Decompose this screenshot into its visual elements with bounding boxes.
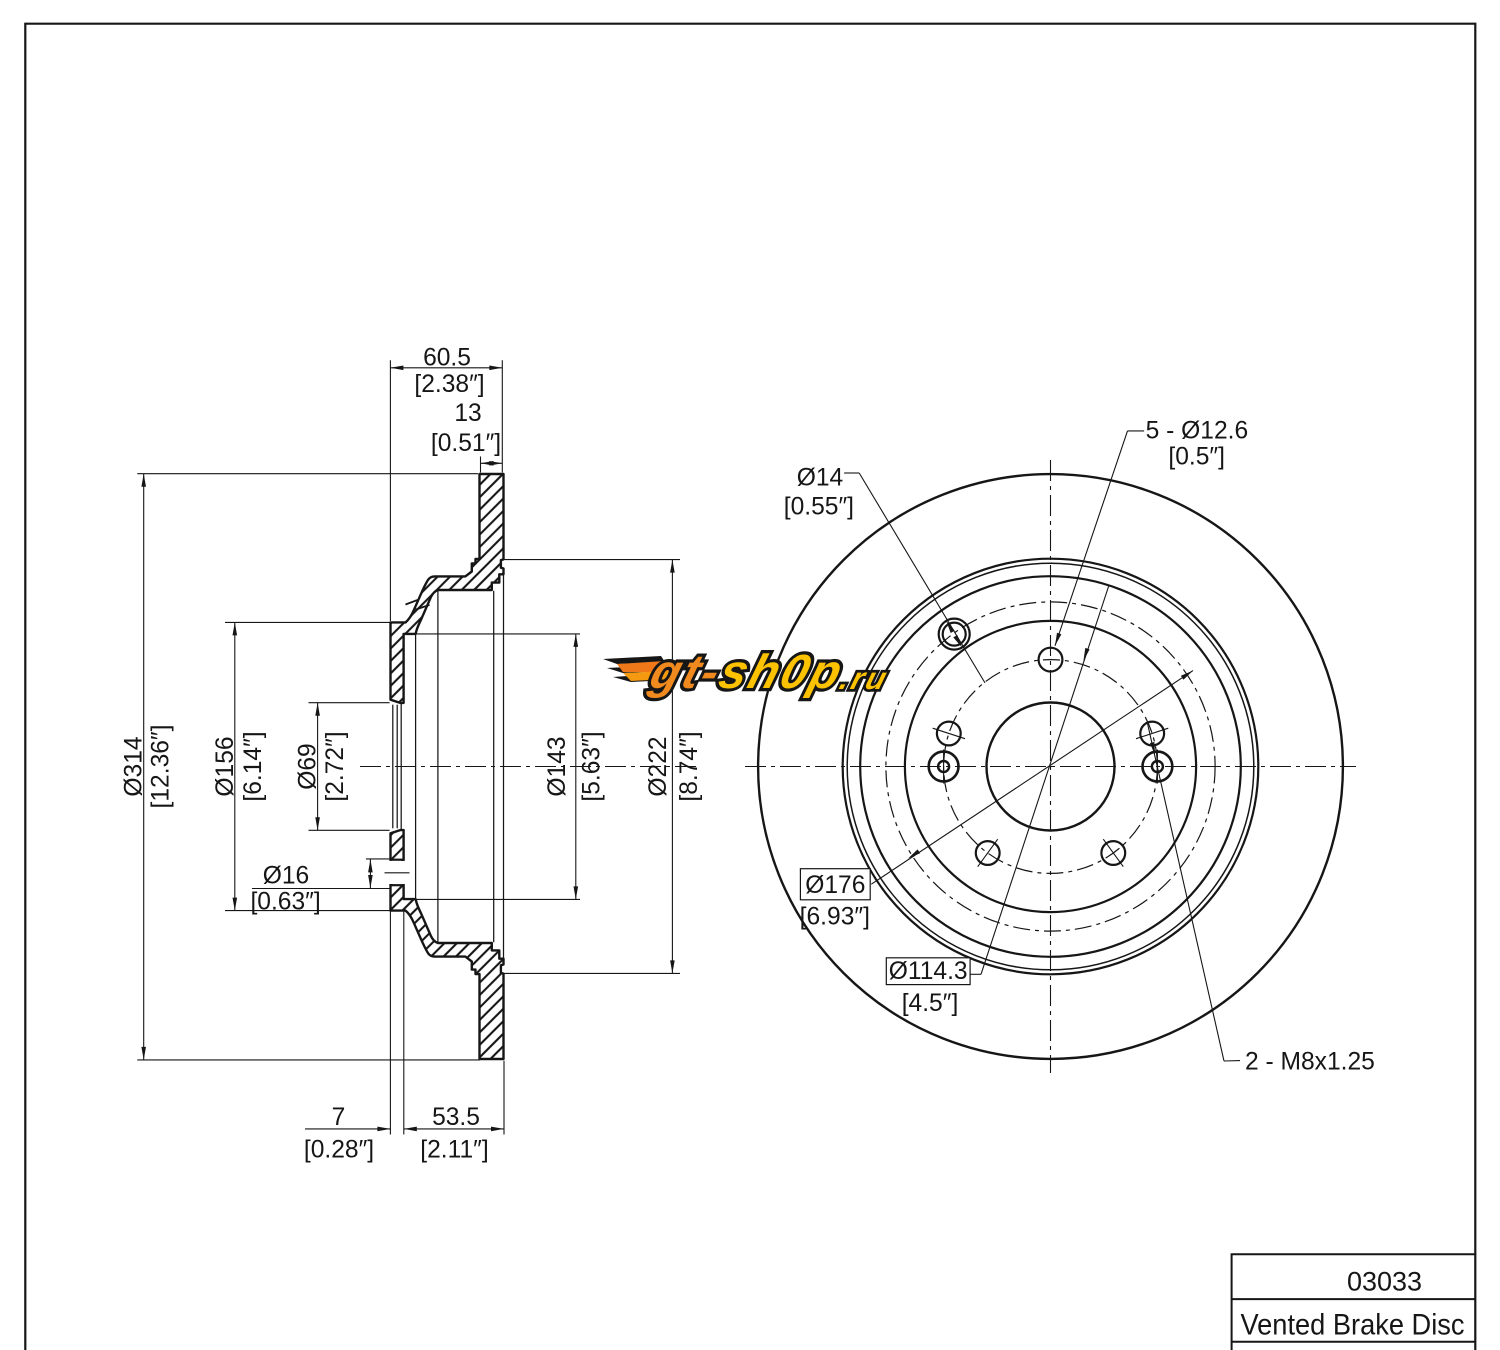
svg-text:Ø16: Ø16 [263,862,310,889]
section: rotor ring + hat + flange (bottom half, hatched) [391,830,504,1059]
boxed label O176 [6.93"] with diameter line [871,671,1193,885]
svg-text:53.5: 53.5 [432,1104,480,1131]
title block [1232,1254,1476,1350]
dim O143 [5.63"] [405,633,581,635]
dim O69 [2.72"] [309,702,390,704]
svg-text:[2.72″]: [2.72″] [322,731,349,801]
svg-text:Ø176: Ø176 [805,872,865,899]
front view centerlines [745,766,1356,768]
svg-text:[8.74″]: [8.74″] [676,731,703,801]
svg-text:7: 7 [332,1104,346,1131]
dim O156 [6.14"] [225,621,390,623]
svg-text:[0.28″]: [0.28″] [304,1136,374,1163]
outer circle O314 [758,474,1343,1059]
svg-text:[0.5″]: [0.5″] [1168,444,1225,471]
svg-text:[2.11″]: [2.11″] [420,1136,488,1163]
svg-text:Vented Brake Disc: Vented Brake Disc [1241,1308,1465,1341]
lug hole O12.6 at 90 deg [1039,648,1063,672]
svg-text:5 - Ø12.6: 5 - Ø12.6 [1146,417,1249,444]
svg-text:60.5: 60.5 [423,344,471,371]
svg-text:13: 13 [454,400,481,427]
edge: O143 recess bottom face [415,634,417,899]
dim 13 [0.51"] [480,457,482,473]
edge: hub bore + chamfer circles [392,705,394,829]
section: rotor ring + hat + flange (top half, hatched) [391,474,504,703]
label 5 - O12.6 [0.5"] with leader to top lug hole [1128,430,1145,432]
label O14 [0.55"] with leader through hole [844,472,859,474]
O16 hole in flange (white gap + edges) [389,861,405,884]
svg-text:Ø114.3: Ø114.3 [889,958,968,985]
edge: rotor inboard faces [493,591,495,942]
lug hole O12.6 at 306 deg [1101,841,1125,865]
boxed label O114.3 [4.5"] with leader [970,973,981,975]
O14 hole [939,619,970,650]
svg-text:03033: 03033 [1347,1267,1422,1297]
M8 service hole [929,752,959,782]
svg-text:[5.63″]: [5.63″] [579,731,606,801]
dim O222 [8.74"] [504,559,680,561]
svg-text:Ø314: Ø314 [120,736,147,796]
dim O16 [0.63"] [366,858,390,860]
svg-text:Ø14: Ø14 [797,464,844,491]
svg-text:[6.14″]: [6.14″] [240,731,267,801]
dim O314 [12.36"] [137,473,478,475]
svg-text:Ø156: Ø156 [212,736,239,796]
section centerline [360,766,700,768]
dim 60.5 [2.38"] [389,360,391,621]
O14 hole marks on hat cone [406,600,418,605]
gt-shop.ru watermark logo [603,646,898,699]
M8 service hole [1143,752,1173,782]
lug hole O12.6 at 234 deg [976,841,1000,865]
center bore O69 [987,703,1115,831]
hub flange circle O156 [905,621,1196,912]
label 2 - M8x1.25 with leader through right M8 hole [1148,724,1225,1062]
O176 bolt/hole circle (dash-dot) [886,602,1215,931]
svg-text:2 - M8x1.25: 2 - M8x1.25 [1245,1049,1375,1076]
lug hole O12.6 at 18 deg [1140,722,1164,746]
edge: hat inner wall [437,590,439,943]
O16 hole centerline [385,872,410,874]
hat outer circle [860,576,1241,957]
svg-text:Ø143: Ø143 [544,736,571,796]
svg-text:Ø222: Ø222 [645,736,672,796]
svg-text:[12.36″]: [12.36″] [148,725,175,809]
svg-text:[0.51″]: [0.51″] [431,430,501,457]
svg-text:[6.93″]: [6.93″] [800,904,870,931]
svg-text:[0.63″]: [0.63″] [250,888,320,915]
svg-text:Ø69: Ø69 [295,743,322,790]
svg-text:[2.38″]: [2.38″] [414,371,484,398]
lug hole O12.6 at 162 deg [937,722,961,746]
bolt circle O114.3 (dash-dot) [944,660,1158,874]
svg-text:[0.55″]: [0.55″] [784,493,854,520]
svg-text:[4.5″]: [4.5″] [902,990,959,1017]
braking band outer edge circles (O222 chamfer rings) [843,559,1259,975]
dims 7 [0.28"] and 53.5 [2.11"] [389,911,391,1134]
